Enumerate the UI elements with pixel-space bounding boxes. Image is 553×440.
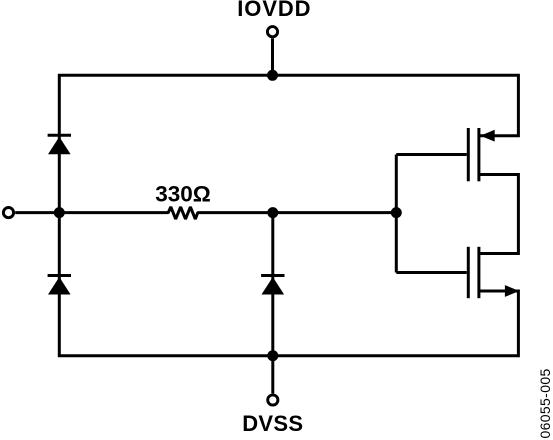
figure number 06055-005 (rotated) [537,368,553,438]
wire: input stub and middle horizontal with resistor [15,207,396,219]
diode D1 (upper left, to IOVDD) [48,135,71,154]
diode D3 (middle, from DVSS) [261,276,284,295]
svg-text:IOVDD: IOVDD [237,0,311,21]
terminal circle: input pad (left) [3,208,13,218]
wire: IOVDD terminal stub [271,38,274,75]
wire: outer loop (top rail, left vertical, bottom rail, right segments) [59,75,518,355]
svg-text:DVSS: DVSS [242,411,303,436]
wire: PMOS gate lead [396,153,467,156]
resistor value label 330Ω [155,181,211,206]
transistor NMOS (lower MOSFET) [468,247,519,298]
junction dot at IOVDD rail [267,70,278,81]
terminal circle: DVSS [268,395,278,405]
svg-text:330Ω: 330Ω [155,181,211,206]
junction dot at gate node [391,207,402,218]
svg-text:06055-005: 06055-005 [537,368,553,438]
wire: NMOS gate lead [396,271,467,274]
wire: middle node down to bottom rail [271,213,274,356]
wire: PMOS source to NMOS drain vertical [480,175,518,254]
junction dot at middle node [267,207,278,218]
wire: gate vertical connecting both MOSFET gates [395,155,398,273]
wire: DVSS terminal stub [271,356,274,394]
terminal circle: IOVDD [267,27,277,37]
junction dot at input node [54,207,65,218]
diode D2 (lower left, from DVSS) [48,276,71,295]
transistor PMOS (upper MOSFET) [468,128,494,181]
net label DVSS [242,411,303,436]
junction dot at DVSS rail [267,350,278,361]
net label IOVDD [237,0,311,21]
